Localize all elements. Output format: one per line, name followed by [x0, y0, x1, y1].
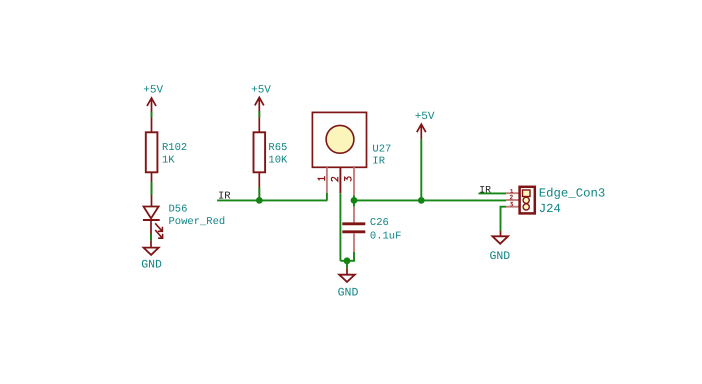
svg-text:IR: IR — [372, 155, 385, 167]
svg-text:+5V: +5V — [415, 111, 435, 123]
svg-text:1K: 1K — [162, 155, 175, 167]
svg-text:R65: R65 — [268, 142, 287, 154]
svg-text:0.1uF: 0.1uF — [370, 230, 402, 242]
svg-text:+5V: +5V — [251, 84, 271, 96]
svg-text:U27: U27 — [372, 143, 391, 155]
svg-text:GND: GND — [338, 286, 359, 299]
svg-text:GND: GND — [489, 250, 510, 263]
svg-text:C26: C26 — [370, 217, 389, 229]
svg-text:10K: 10K — [268, 155, 288, 167]
svg-text:J24: J24 — [539, 202, 561, 216]
svg-text:R102: R102 — [162, 142, 187, 154]
svg-text:Power_Red: Power_Red — [169, 216, 226, 228]
svg-text:Edge_Con3: Edge_Con3 — [539, 187, 605, 201]
svg-text:D56: D56 — [169, 203, 188, 215]
svg-text:+5V: +5V — [143, 84, 163, 96]
svg-text:GND: GND — [141, 259, 162, 272]
